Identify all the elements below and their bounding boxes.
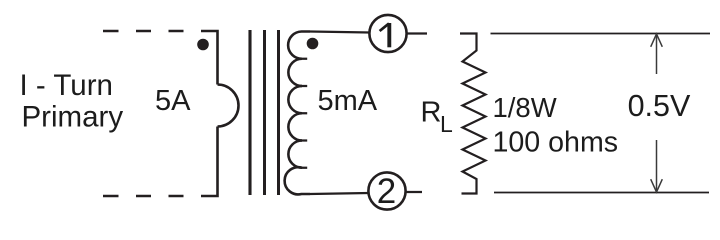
svg-text:1/8W: 1/8W [493, 92, 557, 123]
svg-text:L: L [440, 111, 453, 137]
svg-text:2: 2 [377, 172, 396, 211]
svg-text:0.5V: 0.5V [628, 89, 691, 123]
svg-text:Primary: Primary [22, 101, 124, 134]
svg-text:I - Turn: I - Turn [20, 69, 113, 102]
svg-text:R: R [421, 97, 442, 129]
svg-text:100 ohms: 100 ohms [493, 127, 619, 159]
svg-text:5A: 5A [155, 85, 191, 117]
svg-text:5mA: 5mA [318, 85, 378, 117]
